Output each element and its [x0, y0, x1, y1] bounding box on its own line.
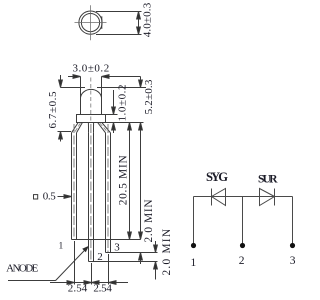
svg-text:2.0 MIN: 2.0 MIN [161, 229, 173, 276]
svg-text:2.54: 2.54 [93, 283, 112, 295]
svg-text:2: 2 [97, 251, 103, 263]
svg-text:2.0 MIN: 2.0 MIN [143, 200, 155, 243]
svg-text:SYG: SYG [206, 170, 228, 184]
svg-text:2.54: 2.54 [68, 283, 88, 295]
svg-text:1: 1 [191, 257, 197, 269]
svg-text:2: 2 [239, 255, 245, 267]
svg-text:6.7±0.5: 6.7±0.5 [47, 91, 59, 129]
svg-text:4.0±0.3: 4.0±0.3 [142, 2, 154, 37]
svg-text:5.2±0.3: 5.2±0.3 [143, 79, 155, 114]
svg-text:0.5: 0.5 [43, 191, 57, 203]
svg-text:ANODE: ANODE [6, 262, 38, 274]
svg-text:20.5 MIN: 20.5 MIN [118, 155, 130, 205]
svg-text:3: 3 [114, 242, 120, 254]
svg-text:1: 1 [59, 242, 64, 252]
svg-text:3: 3 [290, 255, 296, 267]
svg-text:SUR: SUR [258, 173, 278, 186]
svg-text:1.0±0.2: 1.0±0.2 [117, 85, 129, 122]
svg-text:3.0±0.2: 3.0±0.2 [73, 63, 110, 75]
